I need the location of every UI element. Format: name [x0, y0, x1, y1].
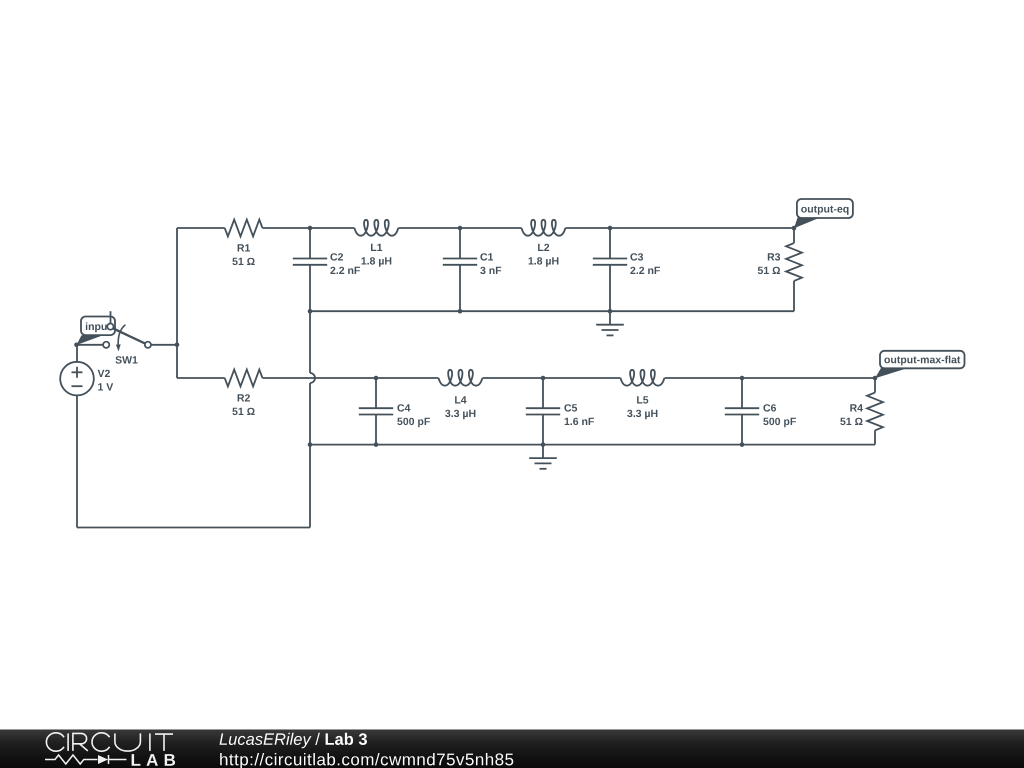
resistor R4 — [867, 393, 883, 431]
wire left vertical — [176, 228, 178, 378]
resistor R3 bottom lead — [793, 281, 795, 311]
capacitor C5 wire — [542, 415, 544, 445]
wire row2 seg3 — [483, 377, 621, 379]
switch SW1 blade — [113, 328, 145, 343]
footer title — [220, 733, 368, 748]
label R4 value — [840, 404, 863, 425]
label C1 value — [480, 253, 501, 274]
wire return bottom — [77, 527, 310, 529]
wire return vertical upper — [309, 311, 311, 373]
ground mid bus — [596, 311, 624, 335]
label L5 value — [627, 396, 657, 419]
capacitor C5 wire — [542, 378, 544, 408]
wire top row seg3 — [398, 227, 521, 229]
capacitor C1 plates — [443, 259, 477, 265]
capacitor C1 wire — [459, 265, 461, 311]
capacitor C2 plates — [293, 259, 327, 265]
resistor R4 bottom lead — [874, 430, 876, 444]
ground row2 bus — [529, 445, 557, 469]
wire top row seg4 — [566, 227, 795, 229]
wire node to switch — [77, 344, 104, 346]
capacitor C1 wire — [459, 228, 461, 259]
inductor L2 — [522, 220, 566, 236]
capacitor C4 wire — [375, 415, 377, 445]
capacitor C6 wire — [741, 415, 743, 445]
logo CIRCUIT — [46, 733, 173, 751]
junction dots — [74, 226, 877, 447]
wire V2 top lead — [76, 345, 78, 362]
label C3 value — [630, 253, 660, 274]
resistor R3 top lead — [793, 228, 795, 243]
inductor L5 — [621, 370, 665, 386]
label R2 value — [232, 394, 254, 415]
switch SW1 up-throw stub — [110, 311, 112, 323]
label C2 value — [330, 253, 360, 274]
label C6 value — [763, 404, 796, 427]
voltage source V2 — [60, 362, 94, 396]
label C5 value — [564, 404, 594, 425]
footer bar — [0, 729, 1024, 768]
flag input — [77, 317, 116, 346]
capacitor C4 wire — [375, 378, 377, 408]
wire row2 seg1 — [177, 377, 225, 379]
footer url — [220, 753, 513, 768]
wire return left vertical — [76, 395, 78, 527]
wire top row seg1 — [177, 227, 225, 229]
flag output-eq — [794, 199, 853, 228]
logo resistor-diode — [45, 755, 127, 764]
wire row2 seg2 — [263, 377, 439, 379]
label SW1 — [115, 356, 137, 363]
wire mid ground bus — [310, 310, 794, 312]
wire return vertical lower — [309, 383, 311, 528]
capacitor C2 wire — [309, 228, 311, 259]
label C4 value — [397, 404, 430, 427]
label R3 value — [758, 253, 780, 274]
flag output-max-flat — [875, 351, 965, 379]
inductor L4 — [439, 370, 483, 386]
wire row2 ground bus — [310, 444, 875, 446]
capacitor C3 plates — [593, 259, 627, 265]
switch SW1 arrow — [116, 325, 126, 352]
resistor R3 — [786, 243, 802, 281]
resistor R2 — [225, 370, 263, 387]
capacitor C6 plates — [725, 408, 759, 414]
label R1 value — [232, 244, 254, 265]
wire switch to junction — [151, 344, 177, 346]
resistor R1 — [225, 220, 263, 237]
label L2 value — [529, 244, 559, 267]
label V2 value — [98, 370, 114, 391]
label L1 value — [362, 244, 392, 267]
capacitor C3 wire — [609, 265, 611, 311]
logo LAB — [132, 754, 176, 766]
capacitor C4 plates — [359, 408, 393, 414]
wire hop over row2 — [310, 373, 315, 383]
resistor R4 top lead — [874, 378, 876, 393]
inductor L1 — [354, 220, 398, 236]
wire top row seg2 — [263, 227, 355, 229]
label L4 value — [445, 396, 475, 419]
wire row2 seg4 — [665, 377, 876, 379]
capacitor C3 wire — [609, 228, 611, 259]
capacitor C5 plates — [526, 408, 560, 414]
capacitor C2 wire — [309, 265, 311, 311]
switch SW1 posts — [103, 324, 151, 348]
capacitor C6 wire — [741, 378, 743, 408]
